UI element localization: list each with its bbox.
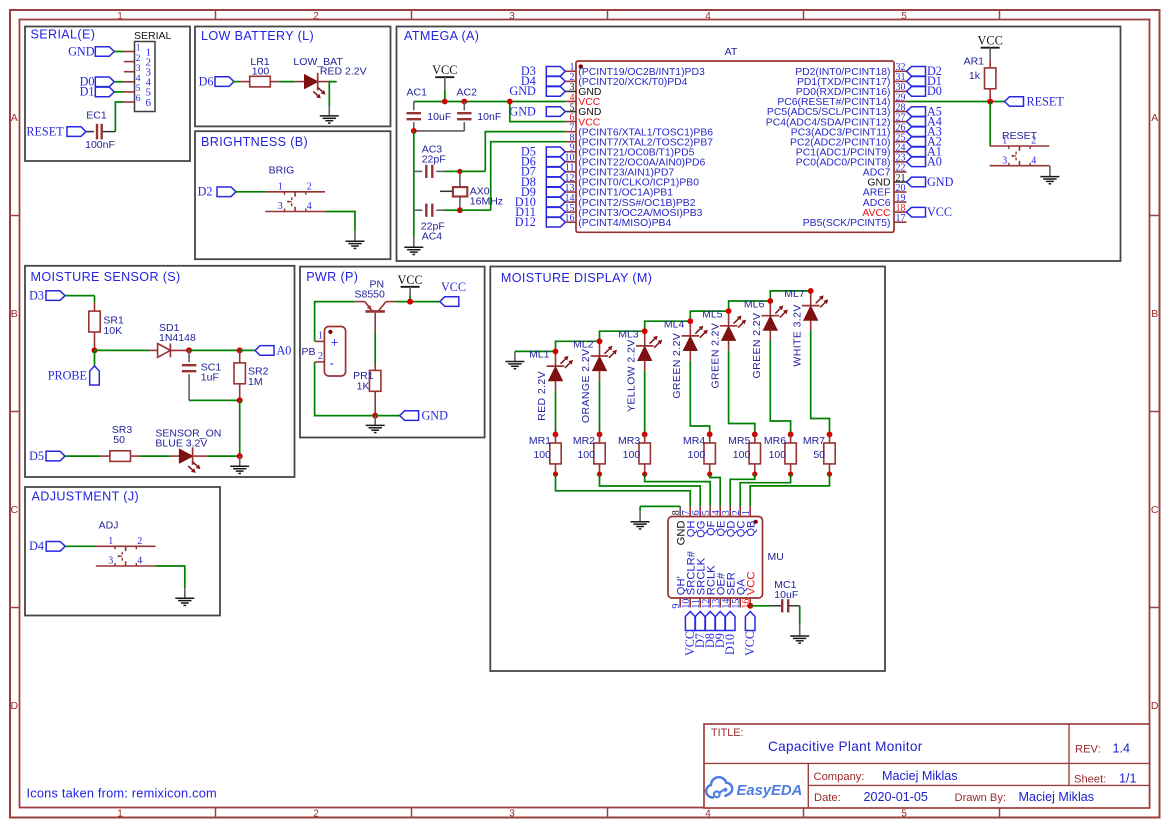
- block LOW BATTERY (L): [195, 27, 391, 127]
- LED LOW_BAT RED 2.2V: [293, 56, 366, 99]
- svg-text:GND: GND: [509, 104, 536, 118]
- capacitor EC1 100nF: [85, 110, 115, 151]
- LED ML3 YELLOW 2.2V: [618, 328, 662, 412]
- svg-text:GND: GND: [509, 84, 536, 98]
- svg-text:D1: D1: [80, 85, 95, 99]
- wire: [989, 102, 991, 147]
- resistor MR4 100: [683, 432, 715, 477]
- junction: [987, 99, 993, 105]
- svg-text:BRIG: BRIG: [269, 165, 295, 177]
- port GND: [907, 175, 954, 189]
- wire battery minus to gnd rail: [315, 362, 376, 416]
- svg-text:ADJ: ADJ: [99, 519, 119, 531]
- wire pin8 to ground: [640, 506, 680, 511]
- svg-text:100: 100: [733, 449, 751, 461]
- resistor PR1 1K: [353, 365, 381, 416]
- svg-text:AC2: AC2: [457, 86, 478, 98]
- svg-text:BLUE 3.2V: BLUE 3.2V: [155, 438, 207, 450]
- wire left rail down: [413, 131, 415, 237]
- svg-text:10uF: 10uF: [427, 111, 451, 123]
- port GND: [400, 409, 449, 423]
- wire: [234, 81, 240, 83]
- svg-text:B: B: [11, 308, 18, 320]
- port D12: [515, 215, 566, 229]
- port D5: [521, 145, 565, 159]
- wire: [690, 311, 728, 321]
- wire branch to pin6: [510, 102, 566, 122]
- resistor AR1 1k: [964, 56, 996, 102]
- junction: [92, 347, 98, 353]
- IC U-AT ATMEGA: [565, 46, 907, 232]
- svg-text:100: 100: [533, 449, 551, 461]
- wire: [114, 51, 124, 53]
- ground: [404, 237, 423, 255]
- port D2: [198, 185, 236, 199]
- svg-text:ML3: ML3: [618, 329, 639, 341]
- block MOISTURE SENSOR (S): [25, 266, 295, 477]
- svg-text:(PCINT4/MISO)PB4: (PCINT4/MISO)PB4: [578, 218, 671, 229]
- svg-text:MU: MU: [768, 551, 784, 563]
- wire: [645, 474, 711, 506]
- svg-text:100: 100: [769, 449, 787, 461]
- wire: [750, 474, 829, 506]
- wire: [65, 296, 95, 303]
- svg-text:A0: A0: [927, 155, 942, 169]
- svg-text:2: 2: [307, 182, 312, 193]
- ground: [320, 106, 339, 123]
- resistor MR6 100: [764, 432, 796, 477]
- svg-text:D3: D3: [29, 288, 44, 302]
- svg-text:3: 3: [108, 556, 113, 567]
- wire: [740, 474, 790, 506]
- svg-text:EasyEDA: EasyEDA: [737, 783, 803, 799]
- wire: [600, 474, 701, 506]
- port D8: [703, 612, 717, 649]
- svg-text:4: 4: [705, 11, 711, 22]
- wire: [710, 474, 721, 506]
- svg-text:LOW BATTERY (L): LOW BATTERY (L): [201, 29, 314, 43]
- svg-text:50: 50: [113, 434, 125, 446]
- junction: [372, 413, 378, 419]
- svg-text:4: 4: [137, 556, 142, 567]
- block ATMEGA (A): [397, 27, 1121, 262]
- port VCC: [440, 280, 466, 306]
- LED ML7 WHITE 3.2V: [784, 288, 828, 367]
- svg-text:D0: D0: [927, 84, 942, 98]
- LED ML6 GREEN 2.2V: [744, 298, 788, 378]
- svg-text:WHITE 3.2V: WHITE 3.2V: [791, 304, 803, 366]
- battery PB: [301, 327, 345, 377]
- wire pin29 to reset net: [907, 101, 1005, 103]
- svg-text:REV:: REV:: [1075, 744, 1101, 756]
- svg-text:GND: GND: [422, 409, 449, 423]
- wire: [445, 209, 460, 211]
- wire: [645, 321, 691, 331]
- svg-text:D5: D5: [29, 449, 44, 463]
- svg-text:1uF: 1uF: [201, 371, 219, 383]
- svg-text:1: 1: [318, 331, 323, 342]
- junction: [442, 99, 513, 105]
- svg-text:2: 2: [136, 54, 141, 64]
- wire: [555, 391, 557, 435]
- svg-text:GREEN 2.2V: GREEN 2.2V: [671, 333, 683, 399]
- port D0: [80, 75, 115, 89]
- svg-text:RESET: RESET: [1027, 94, 1065, 108]
- junction: [186, 347, 192, 353]
- block SERIAL(E): [25, 27, 190, 162]
- svg-text:100: 100: [577, 449, 595, 461]
- port D4: [29, 539, 65, 553]
- wire XTAL2 pin8: [460, 142, 565, 211]
- junction: [407, 299, 413, 305]
- wire: [207, 455, 240, 457]
- wire VCC rail to pin4: [414, 90, 566, 102]
- port A2: [907, 135, 942, 149]
- port D0: [907, 84, 942, 98]
- port A1: [907, 145, 942, 159]
- wire collector down: [374, 332, 376, 365]
- svg-text:MR6: MR6: [764, 435, 786, 447]
- port GND: [509, 104, 565, 118]
- svg-text:22pF: 22pF: [422, 153, 446, 165]
- port D7: [693, 612, 707, 649]
- power VCC symbol: [978, 34, 1003, 61]
- svg-text:Company:: Company:: [814, 771, 865, 783]
- svg-text:ML5: ML5: [702, 308, 723, 320]
- svg-text:2020-01-05: 2020-01-05: [864, 790, 928, 804]
- svg-text:VCC: VCC: [397, 273, 422, 287]
- svg-text:Date:: Date:: [814, 792, 841, 804]
- svg-text:4: 4: [307, 201, 312, 212]
- svg-text:16MHz: 16MHz: [470, 195, 503, 207]
- wire: [329, 82, 336, 107]
- svg-text:GREEN 2.2V: GREEN 2.2V: [751, 313, 763, 379]
- svg-text:VCC: VCC: [441, 280, 466, 294]
- svg-text:10uF: 10uF: [774, 589, 798, 601]
- port A5: [907, 104, 942, 118]
- wire: [600, 331, 645, 341]
- port D2: [907, 64, 942, 78]
- wire: [114, 91, 124, 93]
- wire: [236, 191, 265, 193]
- junction: [457, 169, 463, 213]
- svg-text:1: 1: [741, 510, 752, 515]
- svg-text:-: -: [330, 356, 334, 371]
- svg-text:D12: D12: [515, 215, 536, 229]
- wire: [799, 606, 801, 625]
- switch RESET: [990, 130, 1050, 167]
- svg-text:5: 5: [901, 808, 907, 819]
- svg-text:PB: PB: [301, 346, 315, 358]
- svg-text:S8550: S8550: [355, 289, 386, 301]
- svg-text:Maciej Miklas: Maciej Miklas: [1019, 790, 1095, 804]
- ground: [790, 625, 809, 643]
- svg-text:EC1: EC1: [86, 110, 107, 122]
- svg-text:TITLE:: TITLE:: [711, 727, 743, 739]
- svg-text:ML6: ML6: [744, 298, 765, 310]
- svg-text:YELLOW 2.2V: YELLOW 2.2V: [625, 339, 637, 412]
- junction: [747, 603, 753, 609]
- resistor SR2 1M: [234, 350, 269, 400]
- ground: [1040, 166, 1059, 184]
- svg-text:100: 100: [688, 449, 706, 461]
- svg-text:1N4148: 1N4148: [159, 332, 196, 344]
- svg-text:D6: D6: [199, 74, 214, 88]
- switch BRIG: [265, 165, 325, 213]
- note remixicon: [27, 785, 217, 800]
- wire: [65, 455, 101, 457]
- port D5: [29, 449, 65, 463]
- svg-text:10K: 10K: [103, 325, 122, 337]
- svg-text:VCC: VCC: [745, 572, 757, 596]
- wire: [556, 474, 691, 506]
- power VCC symbol: [397, 273, 422, 302]
- svg-text:1/1: 1/1: [1119, 771, 1137, 785]
- wire: [189, 399, 240, 401]
- svg-text:MR3: MR3: [618, 435, 640, 447]
- wire: [114, 81, 124, 83]
- wire cathode rail to ground: [515, 350, 556, 352]
- IC MU shift register: [668, 506, 784, 609]
- wire: [139, 455, 170, 457]
- capacitor AC1 10uF: [407, 86, 452, 130]
- svg-text:PB5(SCK/PCINT5): PB5(SCK/PCINT5): [803, 218, 891, 229]
- block MOISTURE DISPLAY (M): [490, 267, 885, 672]
- wire: [730, 474, 755, 506]
- port D3: [29, 288, 65, 302]
- block BRIGHTNESS (B): [195, 131, 391, 259]
- svg-text:100: 100: [252, 66, 270, 78]
- block ADJUSTMENT (J): [25, 487, 220, 616]
- svg-text:5: 5: [901, 11, 907, 22]
- svg-text:6: 6: [146, 97, 152, 109]
- svg-text:RESET: RESET: [1002, 130, 1038, 142]
- diode SD1 1N4148: [150, 322, 196, 357]
- port D7: [521, 165, 565, 179]
- port D6: [199, 74, 234, 88]
- svg-text:C: C: [1151, 504, 1159, 516]
- svg-text:Icons taken from: remixicon.co: Icons taken from: remixicon.com: [27, 785, 217, 800]
- svg-text:1: 1: [117, 808, 123, 819]
- svg-text:6: 6: [136, 94, 141, 104]
- wire: [279, 81, 295, 83]
- port RESET: [26, 124, 86, 138]
- wire: [729, 351, 755, 435]
- svg-text:VCC: VCC: [743, 631, 757, 656]
- port D3: [521, 64, 565, 78]
- LED ML2 ORANGE 2.2V: [573, 338, 617, 423]
- capacitor AC4 22pF: [414, 204, 445, 243]
- svg-text:A: A: [1151, 112, 1158, 124]
- svg-text:4: 4: [705, 808, 711, 819]
- svg-text:2: 2: [313, 11, 319, 22]
- junction: [237, 453, 243, 459]
- wire: [770, 291, 810, 301]
- LED ML5 GREEN 2.2V: [702, 308, 746, 388]
- svg-text:C: C: [11, 504, 19, 516]
- svg-text:17: 17: [896, 213, 906, 224]
- svg-text:D10: D10: [723, 634, 737, 655]
- svg-text:AC1: AC1: [407, 86, 428, 98]
- wire: [599, 381, 601, 435]
- wire: [556, 341, 600, 351]
- port A0: [255, 343, 291, 357]
- svg-text:ML7: ML7: [784, 288, 805, 300]
- svg-text:3: 3: [509, 808, 515, 819]
- junction: [237, 397, 243, 403]
- resistor LR1 100: [240, 56, 278, 87]
- wire: [750, 605, 770, 607]
- svg-text:2: 2: [313, 808, 319, 819]
- svg-text:1: 1: [278, 182, 283, 193]
- resistor MR7 50: [803, 432, 835, 477]
- wire: [770, 341, 790, 435]
- svg-text:5: 5: [136, 84, 141, 94]
- port D4: [521, 74, 565, 88]
- port D9: [713, 612, 727, 649]
- svg-text:MR1: MR1: [529, 435, 551, 447]
- svg-text:ATMEGA (A): ATMEGA (A): [404, 29, 479, 43]
- svg-text:A: A: [11, 112, 18, 124]
- port A0: [907, 155, 942, 169]
- svg-text:AC4: AC4: [422, 230, 443, 242]
- wire pin6 to EC1: [102, 102, 124, 132]
- svg-text:D: D: [11, 700, 19, 712]
- svg-text:BRIGHTNESS (B): BRIGHTNESS (B): [201, 135, 308, 149]
- svg-text:1: 1: [117, 11, 123, 22]
- port RESET: [1005, 94, 1065, 108]
- wire: [156, 566, 185, 588]
- svg-text:RESET: RESET: [26, 124, 64, 138]
- svg-text:ML4: ML4: [664, 319, 685, 331]
- junction: [237, 347, 243, 353]
- wire: [396, 301, 440, 303]
- ground: [631, 511, 650, 529]
- svg-text:Capacitive Plant Monitor: Capacitive Plant Monitor: [768, 739, 923, 754]
- capacitor AC3 22pF: [414, 143, 446, 178]
- svg-text:AT: AT: [725, 46, 738, 58]
- wire: [690, 361, 709, 435]
- svg-text:3: 3: [509, 11, 515, 22]
- wire emitter rail: [315, 302, 356, 342]
- resistor MR2 100: [573, 432, 605, 477]
- svg-text:2: 2: [137, 536, 142, 547]
- port D11: [515, 205, 565, 219]
- svg-text:ML1: ML1: [529, 349, 550, 361]
- port D8: [521, 175, 565, 189]
- svg-text:MR4: MR4: [683, 435, 705, 447]
- ground: [230, 456, 249, 473]
- block PWR (P): [300, 267, 485, 438]
- svg-text:MR2: MR2: [573, 435, 595, 447]
- svg-text:3: 3: [1002, 155, 1007, 166]
- svg-text:3: 3: [136, 64, 141, 74]
- logo EasyEDA: [706, 777, 802, 799]
- wire: [729, 301, 771, 311]
- port VCC: [683, 612, 697, 657]
- resistor MR1 100: [529, 432, 561, 477]
- ground: [346, 231, 365, 248]
- svg-text:4: 4: [136, 74, 141, 84]
- port A3: [907, 124, 942, 138]
- port VCC: [743, 612, 757, 657]
- crystal AX0 16MHz: [440, 171, 503, 210]
- svg-text:100nF: 100nF: [85, 139, 115, 151]
- wire XTAL1 pin7: [460, 132, 565, 172]
- port D1: [907, 74, 942, 88]
- svg-text:RED 2.2V: RED 2.2V: [320, 66, 367, 78]
- port GND: [68, 44, 114, 58]
- svg-text:3: 3: [278, 201, 283, 212]
- port PROBE: [48, 350, 100, 385]
- power VCC symbol: [432, 63, 457, 90]
- svg-text:GREEN 2.2V: GREEN 2.2V: [709, 323, 721, 389]
- ground: [366, 416, 385, 433]
- wire: [65, 545, 96, 547]
- svg-text:ADJUSTMENT (J): ADJUSTMENT (J): [32, 490, 140, 504]
- wire: [189, 349, 240, 351]
- svg-text:SERIAL(E): SERIAL(E): [31, 28, 96, 42]
- svg-text:ORANGE 2.2V: ORANGE 2.2V: [580, 349, 592, 423]
- ground: [505, 352, 524, 369]
- svg-text:D: D: [1151, 700, 1159, 712]
- capacitor SC1 1uF: [182, 350, 221, 400]
- svg-text:VCC: VCC: [927, 205, 952, 219]
- svg-text:D4: D4: [29, 539, 44, 553]
- capacitor AC2 10nF: [414, 86, 501, 130]
- svg-text:MR7: MR7: [803, 435, 825, 447]
- LED SENSOR_ON BLUE 3.2V: [155, 428, 221, 473]
- svg-text:1k: 1k: [969, 70, 981, 82]
- switch ADJ: [96, 519, 156, 566]
- resistor MR3 100: [618, 432, 650, 477]
- svg-text:MR5: MR5: [728, 435, 750, 447]
- svg-text:100: 100: [623, 449, 641, 461]
- svg-text:1M: 1M: [248, 376, 263, 388]
- port GND: [509, 84, 565, 98]
- port D10: [515, 195, 566, 209]
- svg-text:+: +: [331, 335, 338, 349]
- svg-text:1: 1: [108, 536, 113, 547]
- svg-text:RED 2.2V: RED 2.2V: [536, 371, 548, 421]
- svg-text:1: 1: [136, 44, 141, 54]
- svg-text:MOISTURE SENSOR (S): MOISTURE SENSOR (S): [31, 270, 181, 284]
- port A4: [907, 114, 942, 128]
- wire: [445, 170, 460, 172]
- svg-text:VCC: VCC: [978, 34, 1003, 48]
- svg-text:Sheet:: Sheet:: [1074, 774, 1106, 786]
- resistor MR5 100: [728, 432, 760, 477]
- port D1: [80, 85, 115, 99]
- svg-text:GND: GND: [68, 44, 95, 58]
- port VCC: [907, 205, 953, 219]
- svg-text:A0: A0: [277, 343, 292, 357]
- LED ML1 RED 2.2V: [529, 349, 573, 421]
- svg-text:B: B: [1151, 308, 1158, 320]
- svg-text:MOISTURE DISPLAY (M): MOISTURE DISPLAY (M): [501, 271, 652, 285]
- svg-text:QB: QB: [745, 521, 757, 537]
- title block: [704, 724, 1150, 808]
- wire: [95, 349, 151, 351]
- wire: [375, 415, 399, 417]
- svg-text:Drawn By:: Drawn By:: [955, 792, 1007, 804]
- wire: [811, 330, 830, 434]
- svg-text:4: 4: [1031, 155, 1036, 166]
- junction: [411, 128, 417, 134]
- wire: [325, 212, 355, 232]
- transistor PN S8550: [355, 279, 397, 332]
- wire: [240, 349, 255, 351]
